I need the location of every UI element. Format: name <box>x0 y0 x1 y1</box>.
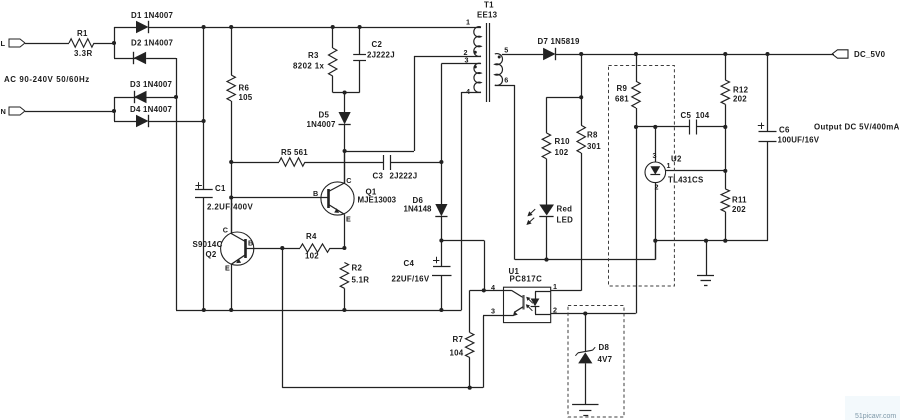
svg-text:E: E <box>346 215 351 224</box>
junction C1 bottom rail <box>202 308 206 312</box>
svg-text:2J222J: 2J222J <box>390 172 418 181</box>
capacitor C3 2J222J <box>383 155 385 170</box>
diode D3 1N4007 <box>114 97 137 99</box>
svg-text:4: 4 <box>466 87 470 96</box>
svg-text:R7: R7 <box>453 335 464 344</box>
optocoupler U1 PC817C <box>504 287 551 322</box>
svg-text:E: E <box>225 264 230 273</box>
ground secondary <box>706 241 708 276</box>
junction R2 bottom rail <box>342 308 346 312</box>
svg-text:202: 202 <box>732 205 746 214</box>
resistor R8 301 <box>581 97 583 125</box>
dashed box zener D8 <box>568 306 624 418</box>
zener D8 4V7 <box>585 314 587 352</box>
node L input tag <box>9 39 25 47</box>
opto phototransistor <box>504 290 512 292</box>
resistor R9 681 <box>636 54 638 81</box>
svg-text:3: 3 <box>653 151 657 160</box>
resistor R10 102 <box>546 97 548 133</box>
svg-text:B: B <box>248 239 253 248</box>
svg-text:102: 102 <box>305 252 319 261</box>
svg-text:D2 1N4007: D2 1N4007 <box>131 39 174 48</box>
junction R11 bottom <box>723 239 727 243</box>
junction D6 cathode aux node <box>439 238 443 242</box>
svg-text:22UF/16V: 22UF/16V <box>392 275 430 284</box>
svg-text:105: 105 <box>239 93 253 102</box>
resistor R4 102 <box>282 248 300 250</box>
svg-text:C6: C6 <box>779 126 790 135</box>
dashed box feedback network <box>609 66 675 287</box>
wire opto pin4 to R7 <box>470 290 504 292</box>
svg-text:LED: LED <box>557 216 574 225</box>
svg-text:D1 1N4007: D1 1N4007 <box>131 11 174 20</box>
junction C2 top <box>358 25 362 29</box>
svg-text:1N4148: 1N4148 <box>404 205 433 214</box>
diode D1 1N4007 <box>114 27 136 29</box>
diode D4 1N4007 <box>114 121 136 123</box>
svg-text:C5: C5 <box>681 111 692 120</box>
wire pin4 down to primary ground rail <box>462 92 482 94</box>
junction Q1 base tee <box>229 195 233 199</box>
transistor Q2 S9014C <box>221 232 254 265</box>
capacitor C2 2J222J <box>359 27 361 55</box>
junction Q2 base node <box>280 246 284 250</box>
junction Q2 emitter bottom rail <box>229 308 233 312</box>
svg-text:Red: Red <box>557 205 573 214</box>
transformer T1 EE13 core <box>486 23 488 102</box>
junction divider mid C5 right <box>723 125 727 129</box>
capacitor C5 104 <box>636 126 689 128</box>
svg-text:102: 102 <box>555 148 569 157</box>
svg-text:3: 3 <box>491 307 495 316</box>
svg-text:C: C <box>223 225 228 234</box>
wire bridge left upper <box>114 27 116 58</box>
polarity dot pin5 <box>498 56 501 59</box>
wire opto pin2 to feedback node <box>551 313 636 315</box>
svg-text:R12: R12 <box>733 86 749 95</box>
svg-text:DC_5V0: DC_5V0 <box>854 50 886 59</box>
svg-text:681: 681 <box>615 95 629 104</box>
capacitor C1 2.2UF/400V <box>196 185 202 187</box>
wire primary bottom rail <box>176 310 462 312</box>
diode D2 1N4007 <box>114 58 136 60</box>
svg-text:T1: T1 <box>484 1 494 10</box>
wire snubber join <box>333 92 360 94</box>
junction L-bridge <box>112 41 116 45</box>
svg-text:PC817C: PC817C <box>510 275 543 284</box>
wire transformer pin2 to Q1 collector node <box>414 56 481 58</box>
junction D7 out <box>579 52 583 56</box>
svg-text:C2: C2 <box>372 40 383 49</box>
svg-text:301: 301 <box>587 142 601 151</box>
junction D5 cathode / pin2 / Q1 collector <box>343 149 347 153</box>
capacitor C4 22UF/16V <box>441 241 443 267</box>
svg-text:D5: D5 <box>319 111 330 120</box>
svg-text:EE13: EE13 <box>477 11 498 20</box>
junction bridge top <box>202 25 206 29</box>
svg-text:51picavr.com: 51picavr.com <box>855 413 896 420</box>
svg-text:1N4007: 1N4007 <box>307 120 337 129</box>
junction LED cathode <box>544 258 548 262</box>
svg-text:C: C <box>346 176 351 185</box>
polarity dot pin2 <box>474 51 477 54</box>
node DC_5V0 output tag <box>832 50 848 58</box>
wire aux node to opto collector feed <box>441 240 484 242</box>
resistor R7 104 <box>469 290 471 332</box>
junction D3 anode to negative rail <box>174 95 178 99</box>
wire Q2 base feedback down and right <box>282 248 284 388</box>
junction R9 bottom C5 left <box>634 125 638 129</box>
junction gnd symbol tee <box>704 239 708 243</box>
svg-text:D3 1N4007: D3 1N4007 <box>130 80 173 89</box>
svg-text:R11: R11 <box>732 196 747 205</box>
svg-text:MJE13003: MJE13003 <box>358 196 397 205</box>
LED light arrows <box>531 209 536 213</box>
svg-text:2: 2 <box>655 183 659 192</box>
svg-text:R1: R1 <box>77 29 88 38</box>
wire negative rail vertical <box>176 58 178 310</box>
junction U2 cathode tee <box>653 125 657 129</box>
diode D7 1N5819 <box>502 54 543 56</box>
svg-text:2.2UF/400V: 2.2UF/400V <box>207 203 253 212</box>
wire R5 to C3 <box>305 162 383 164</box>
node N input tag <box>9 107 25 115</box>
junction R3 top <box>331 25 335 29</box>
svg-text:R5 561: R5 561 <box>281 148 308 157</box>
svg-text:6: 6 <box>504 76 508 85</box>
wire pin6 return <box>495 85 515 87</box>
svg-text:D7 1N5819: D7 1N5819 <box>538 37 581 46</box>
svg-text:R10: R10 <box>555 137 571 146</box>
svg-text:N: N <box>1 107 7 116</box>
svg-text:2J222J: 2J222J <box>367 51 395 60</box>
svg-text:104: 104 <box>696 111 710 120</box>
svg-text:5.1R: 5.1R <box>352 276 370 285</box>
wire opto pin3 down <box>483 315 504 317</box>
junction R4 right / Q1 emitter <box>342 246 346 250</box>
wire positive rail from bridge down to C1 <box>203 27 205 190</box>
svg-text:104: 104 <box>450 349 464 358</box>
svg-text:1: 1 <box>553 282 557 291</box>
shunt regulator U2 TL431CS <box>655 127 657 162</box>
svg-text:Q2: Q2 <box>206 250 217 259</box>
svg-text:1: 1 <box>466 18 470 27</box>
junction D8 tee <box>583 311 587 315</box>
wire R1 to bridge <box>94 43 114 45</box>
junction pin4 feed <box>482 288 486 292</box>
junction R6 top <box>229 25 233 29</box>
wire secondary ground bus <box>655 240 768 242</box>
svg-text:TL431CS: TL431CS <box>668 176 704 185</box>
diode D5 1N4007 <box>344 93 346 113</box>
svg-text:Output DC 5V/400mA: Output DC 5V/400mA <box>814 123 900 132</box>
svg-text:AC 90-240V 50/60Hz: AC 90-240V 50/60Hz <box>4 75 90 84</box>
opto led <box>535 291 551 293</box>
junction N-bridge <box>112 109 116 113</box>
svg-text:R2: R2 <box>352 264 363 273</box>
svg-text:8202 1x: 8202 1x <box>293 62 325 71</box>
LED Red <box>539 205 554 216</box>
resistor R12 202 <box>725 54 727 80</box>
svg-text:R4: R4 <box>306 232 317 241</box>
transformer primary winding pins 1-2 <box>474 27 481 57</box>
resistor R3 8202 1% <box>332 27 334 48</box>
resistor R2 5.1R <box>340 263 348 289</box>
svg-text:202: 202 <box>733 95 747 104</box>
wire L to R1 <box>25 43 69 45</box>
resistor R5 561 <box>231 162 279 164</box>
svg-text:100UF/16V: 100UF/16V <box>778 136 820 145</box>
svg-text:L: L <box>1 39 6 48</box>
svg-text:5: 5 <box>504 46 508 55</box>
svg-text:R6: R6 <box>239 84 250 93</box>
polarity dot pin3 <box>474 65 477 68</box>
watermark <box>845 396 900 420</box>
resistor R6 105 <box>231 27 233 75</box>
wire R10 R8 feed <box>581 54 583 97</box>
svg-text:D8: D8 <box>599 343 610 352</box>
resistor R11 202 <box>725 127 727 189</box>
ground D8 <box>572 404 598 406</box>
transformer secondary winding pins 5-6 <box>495 54 503 86</box>
svg-text:C1: C1 <box>215 184 226 193</box>
svg-text:S9014C: S9014C <box>193 240 223 249</box>
transistor Q1 MJE13003 <box>321 182 354 215</box>
junction U2 anode gnd bus <box>653 239 657 243</box>
wire top rail to transformer pin1 <box>204 27 481 29</box>
svg-text:B: B <box>313 189 318 198</box>
junction R6 bottom / R5 left <box>229 160 233 164</box>
diode D6 1N4148 <box>435 204 447 216</box>
svg-text:C3: C3 <box>373 172 384 181</box>
junction R7 bottom <box>468 386 472 390</box>
wire pin3 down to D6 <box>441 63 481 65</box>
svg-text:U2: U2 <box>671 155 682 164</box>
wire bridge left lower <box>114 97 116 121</box>
junction U2 ref divider <box>723 169 727 173</box>
junction C3 to pin3 line <box>439 160 443 164</box>
opto light arrows <box>529 299 533 303</box>
svg-text:R9: R9 <box>617 84 628 93</box>
wire N to bridge <box>25 111 114 113</box>
svg-text:4V7: 4V7 <box>598 355 613 364</box>
svg-text:R3: R3 <box>308 51 319 60</box>
resistor R1 <box>69 39 94 47</box>
svg-text:D4 1N4007: D4 1N4007 <box>130 105 173 114</box>
junction D4 cathode to positive rail <box>202 119 206 123</box>
junction C4 bottom rail <box>439 308 443 312</box>
junction snubber to D5 <box>343 90 347 94</box>
capacitor C6 100UF/16V <box>767 54 769 131</box>
svg-text:R8: R8 <box>587 131 598 140</box>
wire R8 to opto pin1 <box>551 290 582 292</box>
svg-text:C4: C4 <box>404 259 415 268</box>
transformer aux winding pins 3-4 <box>474 63 481 92</box>
svg-text:3.3R: 3.3R <box>74 49 93 58</box>
